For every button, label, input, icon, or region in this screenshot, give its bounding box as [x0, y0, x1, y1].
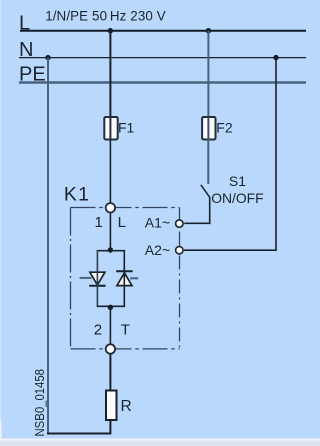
svg-text:R: R [121, 398, 132, 415]
wire bottom return horizontal [47, 433, 110, 435]
svg-text:NSB0_01458: NSB0_01458 [32, 369, 47, 437]
svg-text:F2: F2 [216, 120, 233, 136]
svg-text:~: ~ [162, 215, 170, 231]
svg-text:T: T [121, 322, 130, 339]
thyristor V1 (left, down) triangle [90, 272, 105, 285]
resistor R body [106, 391, 117, 421]
junction N-A2 [273, 55, 278, 60]
fuse F2 [202, 117, 215, 140]
terminal 2 circle [106, 344, 115, 353]
bus PE [19, 81, 306, 83]
relay K1 enclosure top edge [71, 207, 180, 209]
thyristor V1 gate [80, 277, 92, 279]
switch S1 blade [201, 185, 210, 198]
fuse F1 [104, 117, 117, 140]
triac bottom bar [97, 305, 126, 307]
wire N to A2 vertical [275, 58, 277, 251]
relay K1 enclosure left edge [70, 208, 72, 349]
svg-text:K1: K1 [64, 183, 90, 205]
junction triac bottom [108, 305, 113, 310]
triac left branch wire [96, 250, 98, 307]
svg-text:ON/OFF: ON/OFF [211, 190, 263, 206]
thyristor V2 (right, up) triangle [117, 273, 132, 286]
triac right branch wire [123, 250, 125, 307]
svg-text:L: L [118, 214, 126, 231]
thyristor V1 cathode bar [89, 285, 105, 287]
wire switch to A1 [184, 197, 209, 223]
bus N [19, 57, 306, 59]
junction triac top [108, 247, 113, 252]
wire A2 horizontal [184, 249, 277, 251]
wire L to F2 [207, 31, 209, 117]
junction L-F2 [206, 28, 211, 33]
wire N return left vertical [47, 58, 49, 434]
relay K1 enclosure bottom edge [71, 348, 180, 350]
svg-text:S1: S1 [229, 173, 246, 189]
wire triac to terminal 2 [109, 307, 111, 345]
wire terminal 2 to resistor [109, 354, 111, 392]
triac top bar [97, 250, 126, 252]
wire F2 to switch [207, 140, 209, 185]
terminal A2 circle [176, 247, 183, 254]
svg-text:A2: A2 [145, 242, 162, 258]
wire terminal1 to triac [109, 212, 111, 250]
wire resistor to bottom [109, 420, 111, 435]
svg-text:A1: A1 [145, 215, 162, 231]
wire F1 to K1 terminal 1 [109, 140, 111, 204]
svg-text:2: 2 [94, 322, 102, 339]
junction N-return [45, 55, 50, 60]
thyristor V2 gate [130, 277, 138, 279]
svg-text:1/N/PE 50 Hz 230 V: 1/N/PE 50 Hz 230 V [45, 9, 166, 24]
relay K1 enclosure right edge [179, 208, 181, 349]
wire L to F1 [109, 31, 111, 117]
svg-text:F1: F1 [118, 120, 135, 136]
svg-text:1: 1 [95, 214, 103, 231]
bus L [20, 30, 306, 32]
terminal A1 circle [176, 220, 183, 227]
svg-text:~: ~ [162, 242, 170, 258]
terminal 1 circle [106, 203, 115, 212]
junction L-F1 [108, 28, 113, 33]
thyristor V2 anode bar [116, 270, 132, 272]
